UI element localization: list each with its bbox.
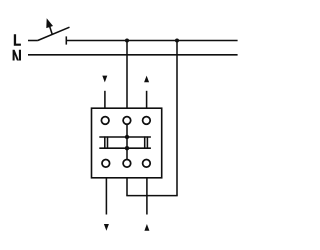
terminal circle top-middle: [123, 117, 131, 125]
wire top-right terminal stub: [146, 91, 148, 109]
arrow bottom-left (down): [104, 224, 109, 231]
bridge link upper bar: [99, 136, 151, 138]
bridge right tick 2: [146, 136, 148, 149]
wire L stub from label: [28, 40, 37, 42]
bridge link lower bar: [99, 147, 151, 149]
node junction dot 1 on L: [125, 39, 129, 43]
terminal circle bottom-right: [143, 160, 151, 168]
switch S1 fixed contact tick: [65, 36, 67, 44]
bridge left tick 2: [107, 136, 109, 149]
switch S1 blade: [37, 27, 69, 40]
arrow top-left (down): [102, 76, 107, 83]
terminal circle top-left: [101, 117, 109, 125]
wire through bridge center: [126, 124, 128, 159]
terminal circle bottom-middle: [123, 160, 131, 168]
arrow top-right (up): [144, 76, 149, 83]
wire bottom-left terminal stub: [105, 178, 107, 215]
label N: [13, 50, 21, 61]
wire N line: [28, 54, 238, 56]
wire horizontal return to bottom middle terminal: [126, 195, 177, 197]
device box U1: [92, 108, 162, 178]
wire L line: [66, 40, 237, 42]
node bridge dot lower: [125, 146, 129, 150]
terminal circle top-right: [143, 117, 151, 125]
switch S1 actuation arrowhead: [46, 18, 53, 28]
wire from dot1 down to top middle terminal: [126, 41, 128, 109]
terminal circle bottom-left: [102, 160, 110, 168]
switch S1 actuation arrow shaft: [50, 27, 53, 35]
node bridge dot upper: [125, 135, 129, 139]
node junction dot 2 on L: [175, 39, 179, 43]
wire from dot2 down right side: [176, 41, 178, 196]
wire bottom middle terminal to return: [126, 178, 128, 196]
bridge right tick 1: [144, 136, 146, 149]
bridge left tick 1: [104, 136, 106, 149]
wire bottom-right terminal stub: [146, 178, 148, 215]
arrow bottom-right (up): [144, 224, 149, 231]
wire top-left terminal stub: [104, 91, 106, 109]
label L: [14, 34, 21, 46]
